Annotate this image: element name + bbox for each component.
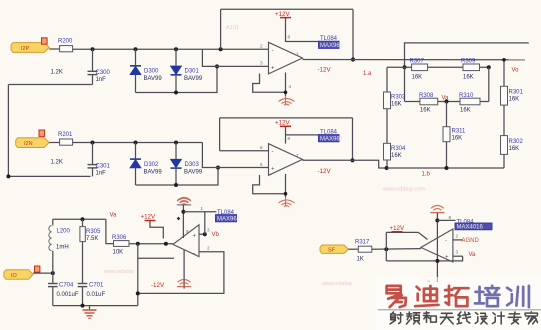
svg-text:5: 5 <box>260 162 263 167</box>
ground below op-amp U1A <box>279 96 295 105</box>
diode D301 (BAV99, pointing down) <box>171 49 203 92</box>
wire pin8 to designator ch2 <box>286 134 320 136</box>
wire network bottom <box>387 167 504 169</box>
wire feedback vertical ch2 <box>219 118 221 151</box>
wire op-amp2 output to network bottom <box>303 160 387 168</box>
svg-text:BAV99: BAV99 <box>184 76 203 82</box>
resistor R311 (vertical) <box>443 102 466 169</box>
wire port to R201 <box>49 142 59 144</box>
wire tank top <box>53 218 106 220</box>
power +12V symbol ch1 <box>275 11 291 42</box>
wire op-amp1 output to network <box>303 59 526 61</box>
svg-text:BAV99: BAV99 <box>144 76 163 82</box>
wire plus pin U2B <box>453 255 463 257</box>
node feedback bottom <box>136 291 140 295</box>
node network bottom left <box>385 166 389 170</box>
node D301 rail <box>174 91 178 95</box>
resistor R317 <box>355 240 372 263</box>
wire row2 <box>405 101 489 103</box>
node junction D300 <box>134 47 138 51</box>
wire pin8 to designator <box>286 41 320 43</box>
port IO red tag <box>35 266 40 272</box>
wire V- stem U2A <box>183 250 185 289</box>
resistor R302 (right column lower, vertical) <box>501 136 524 155</box>
node junction D301 <box>174 47 178 51</box>
svg-text:www.edatop: www.edatop <box>103 269 134 275</box>
wire V+ stem U2A <box>182 205 184 238</box>
svg-text:R317: R317 <box>355 240 370 246</box>
port IO (bottom left) <box>4 270 33 280</box>
svg-text:16K: 16K <box>509 146 520 152</box>
svg-text:L200: L200 <box>57 229 71 235</box>
node plus input ch1 <box>215 64 219 68</box>
wire row1 <box>387 66 489 68</box>
node V+ stem <box>181 210 185 214</box>
svg-text:1nF: 1nF <box>96 170 107 176</box>
wire pin4 stem ch2 <box>285 174 287 198</box>
svg-text:D300: D300 <box>144 69 159 75</box>
svg-text:Va: Va <box>110 213 118 219</box>
wire junction down <box>137 244 139 306</box>
svg-text:3: 3 <box>260 61 263 66</box>
ground below op-amp U1B <box>279 197 295 206</box>
wire tank to R306 <box>106 219 114 243</box>
svg-text:R201: R201 <box>58 132 73 138</box>
wire op-amp2 V- pin <box>253 175 286 194</box>
op-amp U1B triangle <box>269 144 303 176</box>
node R311 bottom <box>445 166 449 170</box>
wire minus input ch2 <box>220 150 269 152</box>
node row1 right <box>487 65 491 69</box>
wire right column bottom <box>503 154 505 168</box>
svg-text:R301: R301 <box>509 90 524 96</box>
svg-text:R302: R302 <box>509 139 524 145</box>
logo big text peixun (培训) <box>475 286 529 307</box>
wire pin4 stem <box>285 73 287 97</box>
svg-text:-: - <box>445 239 447 245</box>
svg-text:1: 1 <box>296 52 299 57</box>
svg-text:1.2K: 1.2K <box>51 160 63 166</box>
capacitor C704 <box>48 273 79 306</box>
power dome below U2A <box>177 280 191 287</box>
logo big text yiditop (易迪拓) <box>387 286 469 307</box>
wire V+ stem to label <box>183 211 216 213</box>
svg-text:16K: 16K <box>463 75 474 81</box>
svg-text:C300: C300 <box>96 70 111 76</box>
svg-text:10K: 10K <box>113 250 124 256</box>
svg-text:1.2K: 1.2K <box>51 70 63 76</box>
svg-text:7: 7 <box>296 153 299 158</box>
svg-text:MAX961: MAX961 <box>320 137 344 143</box>
svg-text:8: 8 <box>288 35 291 40</box>
svg-text:3: 3 <box>456 250 459 255</box>
resistor R200 <box>51 39 74 76</box>
svg-text:R308: R308 <box>419 93 434 99</box>
node V+ tap U2B <box>435 218 439 222</box>
node right column top <box>502 58 506 62</box>
wire signal jog to plus input ch1 <box>202 49 268 66</box>
svg-text:8: 8 <box>186 229 189 234</box>
node junction D302 <box>134 141 138 145</box>
svg-text:+: + <box>445 255 449 261</box>
wire left column top <box>386 67 388 92</box>
node tank bottom <box>81 304 85 308</box>
wire left column bottom <box>386 160 388 168</box>
svg-text:R311: R311 <box>452 129 467 135</box>
node port IO <box>51 271 55 275</box>
resistor R302b (vertical 7.5K) <box>80 219 101 283</box>
svg-text:7.5K: 7.5K <box>86 236 98 242</box>
svg-text:www.edatop.com: www.edatop.com <box>382 187 425 193</box>
svg-text:2: 2 <box>456 234 459 239</box>
svg-text:SF: SF <box>328 248 336 254</box>
svg-text:3: 3 <box>207 228 210 233</box>
wire U2B upper horizontal <box>386 232 427 239</box>
resistor R307 <box>410 59 428 81</box>
logo backdrop <box>376 277 541 330</box>
node output stub <box>164 242 168 246</box>
svg-text:-12V: -12V <box>151 282 165 289</box>
svg-text:R303: R303 <box>391 95 406 101</box>
wire row1 right down to row2 <box>488 67 490 101</box>
svg-text:IO: IO <box>11 273 18 279</box>
svg-text:8: 8 <box>449 215 452 220</box>
wire left rail <box>8 85 90 177</box>
op-amp U2A part label box <box>216 215 241 223</box>
svg-text:Vo: Vo <box>512 68 520 74</box>
wire feedback top rail ch2 <box>220 117 353 119</box>
svg-text:4: 4 <box>289 84 292 89</box>
svg-text:R200: R200 <box>58 39 73 45</box>
resistor R309 <box>461 59 480 81</box>
svg-text:2: 2 <box>207 246 210 251</box>
wire diode ground rail ch2 <box>136 168 219 186</box>
op-amp U1A part label box <box>319 41 344 49</box>
node output junction ch1 <box>351 57 355 61</box>
power +12V symbol U2A <box>141 214 164 239</box>
svg-text:+: + <box>271 65 275 71</box>
svg-text:C301: C301 <box>96 163 111 169</box>
node Wa <box>445 100 449 104</box>
resistor R306 (10K) <box>112 235 129 256</box>
svg-text:BAV99: BAV99 <box>144 169 163 175</box>
port I2N (channel 2 input) <box>16 138 50 148</box>
node power tap <box>177 217 181 221</box>
svg-text:BAV99: BAV99 <box>184 169 203 175</box>
svg-text:+12V: +12V <box>141 214 156 221</box>
svg-text:+12V: +12V <box>275 120 290 127</box>
node rail corner <box>6 174 10 178</box>
wire R201 to jog ch2 <box>73 142 203 144</box>
svg-text:D301: D301 <box>185 69 200 75</box>
resistor R304 (left column lower, vertical) <box>384 143 407 160</box>
diode D303 (BAV99, pointing down) <box>171 143 203 186</box>
capacitor C300 <box>88 49 111 84</box>
svg-text:MAX961: MAX961 <box>320 43 344 49</box>
svg-text:I2N: I2N <box>24 141 33 147</box>
svg-text:16K: 16K <box>391 153 402 159</box>
svg-text:1nF: 1nF <box>96 77 107 83</box>
wire diode ground rail ch1 <box>136 66 218 92</box>
svg-text:www.edatop: www.edatop <box>321 281 352 287</box>
svg-text:1: 1 <box>201 206 204 211</box>
node junction feedback <box>219 47 223 51</box>
wire op-amp1 V- pin <box>253 74 286 93</box>
wire feedback down to output ch1 <box>352 9 354 59</box>
node output junction ch2 <box>350 158 354 162</box>
port I2N red tag <box>39 130 45 136</box>
svg-text:16K: 16K <box>460 108 471 114</box>
svg-text:I2P: I2P <box>21 46 30 52</box>
node D303 rail <box>174 183 178 187</box>
wire R306 to op-amp <box>129 243 173 245</box>
svg-text:6: 6 <box>260 145 263 150</box>
wire feedback top rail ch1 <box>221 8 353 10</box>
wire pin8 to designator U2B <box>437 219 455 221</box>
op-amp U2A triangle (points left) <box>173 225 199 257</box>
op-amp U2B triangle (points left) <box>421 229 453 262</box>
svg-text:Vb: Vb <box>212 232 220 238</box>
node junction C300 <box>91 47 95 51</box>
svg-text:A101: A101 <box>226 25 239 31</box>
wire R317 to op-amp U2B <box>372 248 421 251</box>
resistor R303 (left column upper, vertical) <box>384 92 407 109</box>
wire feedback down to output ch2 <box>352 118 354 160</box>
resistor R301 (right column upper, vertical) <box>501 86 524 105</box>
svg-text:R306: R306 <box>112 235 127 241</box>
port I2P red tag <box>42 38 48 44</box>
svg-text:+12V: +12V <box>390 225 405 232</box>
node row1 left <box>403 65 407 69</box>
resistor R310 <box>459 93 480 114</box>
power +12V symbol ch2 <box>275 120 291 144</box>
wire port IO to node <box>33 272 53 274</box>
port SF (bottom right) <box>320 245 349 254</box>
svg-text:16K: 16K <box>452 136 463 142</box>
wire right column middle <box>503 105 505 136</box>
capacitor C301 <box>88 143 111 177</box>
svg-text:1K: 1K <box>357 257 364 263</box>
node R306 output junction <box>136 242 140 246</box>
logo divider line <box>378 309 541 311</box>
svg-text:R304: R304 <box>391 146 406 152</box>
wire label down to plus pin <box>204 212 206 234</box>
wire vertical row1-row2 left link <box>404 67 406 101</box>
node bottom wire crossing <box>435 259 439 263</box>
svg-text:1.b: 1.b <box>422 172 431 178</box>
node plus pin <box>203 232 207 236</box>
svg-text:C701: C701 <box>89 283 104 289</box>
wire port SF to R317 <box>349 248 359 250</box>
wire V stem U2B <box>436 213 438 282</box>
svg-text:-12V: -12V <box>318 168 332 175</box>
ground below ch2 diode rail <box>177 198 191 205</box>
power dome above U2B <box>430 206 444 213</box>
wire feedback vertical ch1 <box>220 9 222 49</box>
wire U2B feedback vertical <box>385 232 387 261</box>
svg-text:16K: 16K <box>420 108 431 114</box>
svg-text:Va: Va <box>469 252 477 258</box>
svg-text:8: 8 <box>288 136 291 141</box>
svg-text:MAX4016: MAX4016 <box>457 225 484 231</box>
power +12V label U2B <box>390 225 405 232</box>
svg-text:AGND: AGND <box>462 238 480 244</box>
power dome above U2A <box>178 198 191 203</box>
svg-text:1mH: 1mH <box>56 245 69 251</box>
node junction C301 <box>91 141 95 145</box>
svg-text:2: 2 <box>260 44 263 49</box>
op-amp U2B part label box <box>455 223 492 231</box>
inductor L200 <box>49 219 71 273</box>
logo subtitle (射频和天线设计专家) <box>390 312 537 324</box>
wire network top <box>405 43 529 67</box>
svg-text:0.01uF: 0.01uF <box>87 292 106 298</box>
node plus input ch2 <box>216 166 220 170</box>
wire minus input feedback loop <box>138 252 224 294</box>
svg-text:+: + <box>271 167 275 173</box>
wire port to R200 <box>49 48 59 50</box>
wire cap return to left rail <box>8 84 92 86</box>
svg-text:-: - <box>193 251 195 257</box>
svg-text:MAX961: MAX961 <box>217 217 241 223</box>
node pin4 ch1 <box>284 91 288 95</box>
svg-text:16K: 16K <box>391 102 402 108</box>
wire plus input pin <box>199 233 205 235</box>
diode D300 (BAV99, pointing up) <box>130 49 162 92</box>
svg-text:D303: D303 <box>185 162 200 168</box>
node U2B output junction <box>384 247 388 251</box>
svg-text:-12V: -12V <box>318 67 332 74</box>
svg-text:1.a: 1.a <box>363 71 372 77</box>
wire minus pin U2B <box>453 239 463 241</box>
port I2P (channel 1 input) <box>11 43 49 53</box>
diode D302 (BAV99, pointing up) <box>130 143 162 186</box>
wire left column middle <box>386 109 388 144</box>
svg-text:D302: D302 <box>144 162 159 168</box>
node junction D303 <box>174 141 178 145</box>
wire U2B lower horizontal <box>386 256 462 261</box>
svg-text:-: - <box>272 149 274 155</box>
svg-text:R310: R310 <box>459 93 474 99</box>
svg-text:R307: R307 <box>410 59 425 65</box>
wire R200 to op-amp minus input <box>73 48 269 50</box>
wire right column top <box>503 60 505 87</box>
svg-text:R309: R309 <box>461 59 476 65</box>
capacitor C701 <box>78 283 106 306</box>
svg-text:-: - <box>272 48 274 54</box>
wire stub lower <box>138 257 174 259</box>
svg-text:16K: 16K <box>412 75 423 81</box>
node pin4 ch2 <box>284 192 288 196</box>
svg-text:+: + <box>193 234 197 240</box>
svg-text:0.001uF: 0.001uF <box>57 292 79 298</box>
op-amp U1B part label box <box>319 135 344 143</box>
ground tank (red) <box>83 306 97 319</box>
wire signal jog to plus input ch2 <box>202 143 268 168</box>
op-amp U1A triangle <box>269 42 303 74</box>
svg-text:Va: Va <box>442 96 450 102</box>
svg-text:R305: R305 <box>86 229 101 235</box>
svg-text:16K: 16K <box>509 97 520 103</box>
node tank top <box>81 217 85 221</box>
svg-text:C704: C704 <box>59 283 74 289</box>
wire tank bottom <box>53 305 138 307</box>
resistor R308 <box>419 93 438 114</box>
resistor R201 <box>51 132 74 166</box>
